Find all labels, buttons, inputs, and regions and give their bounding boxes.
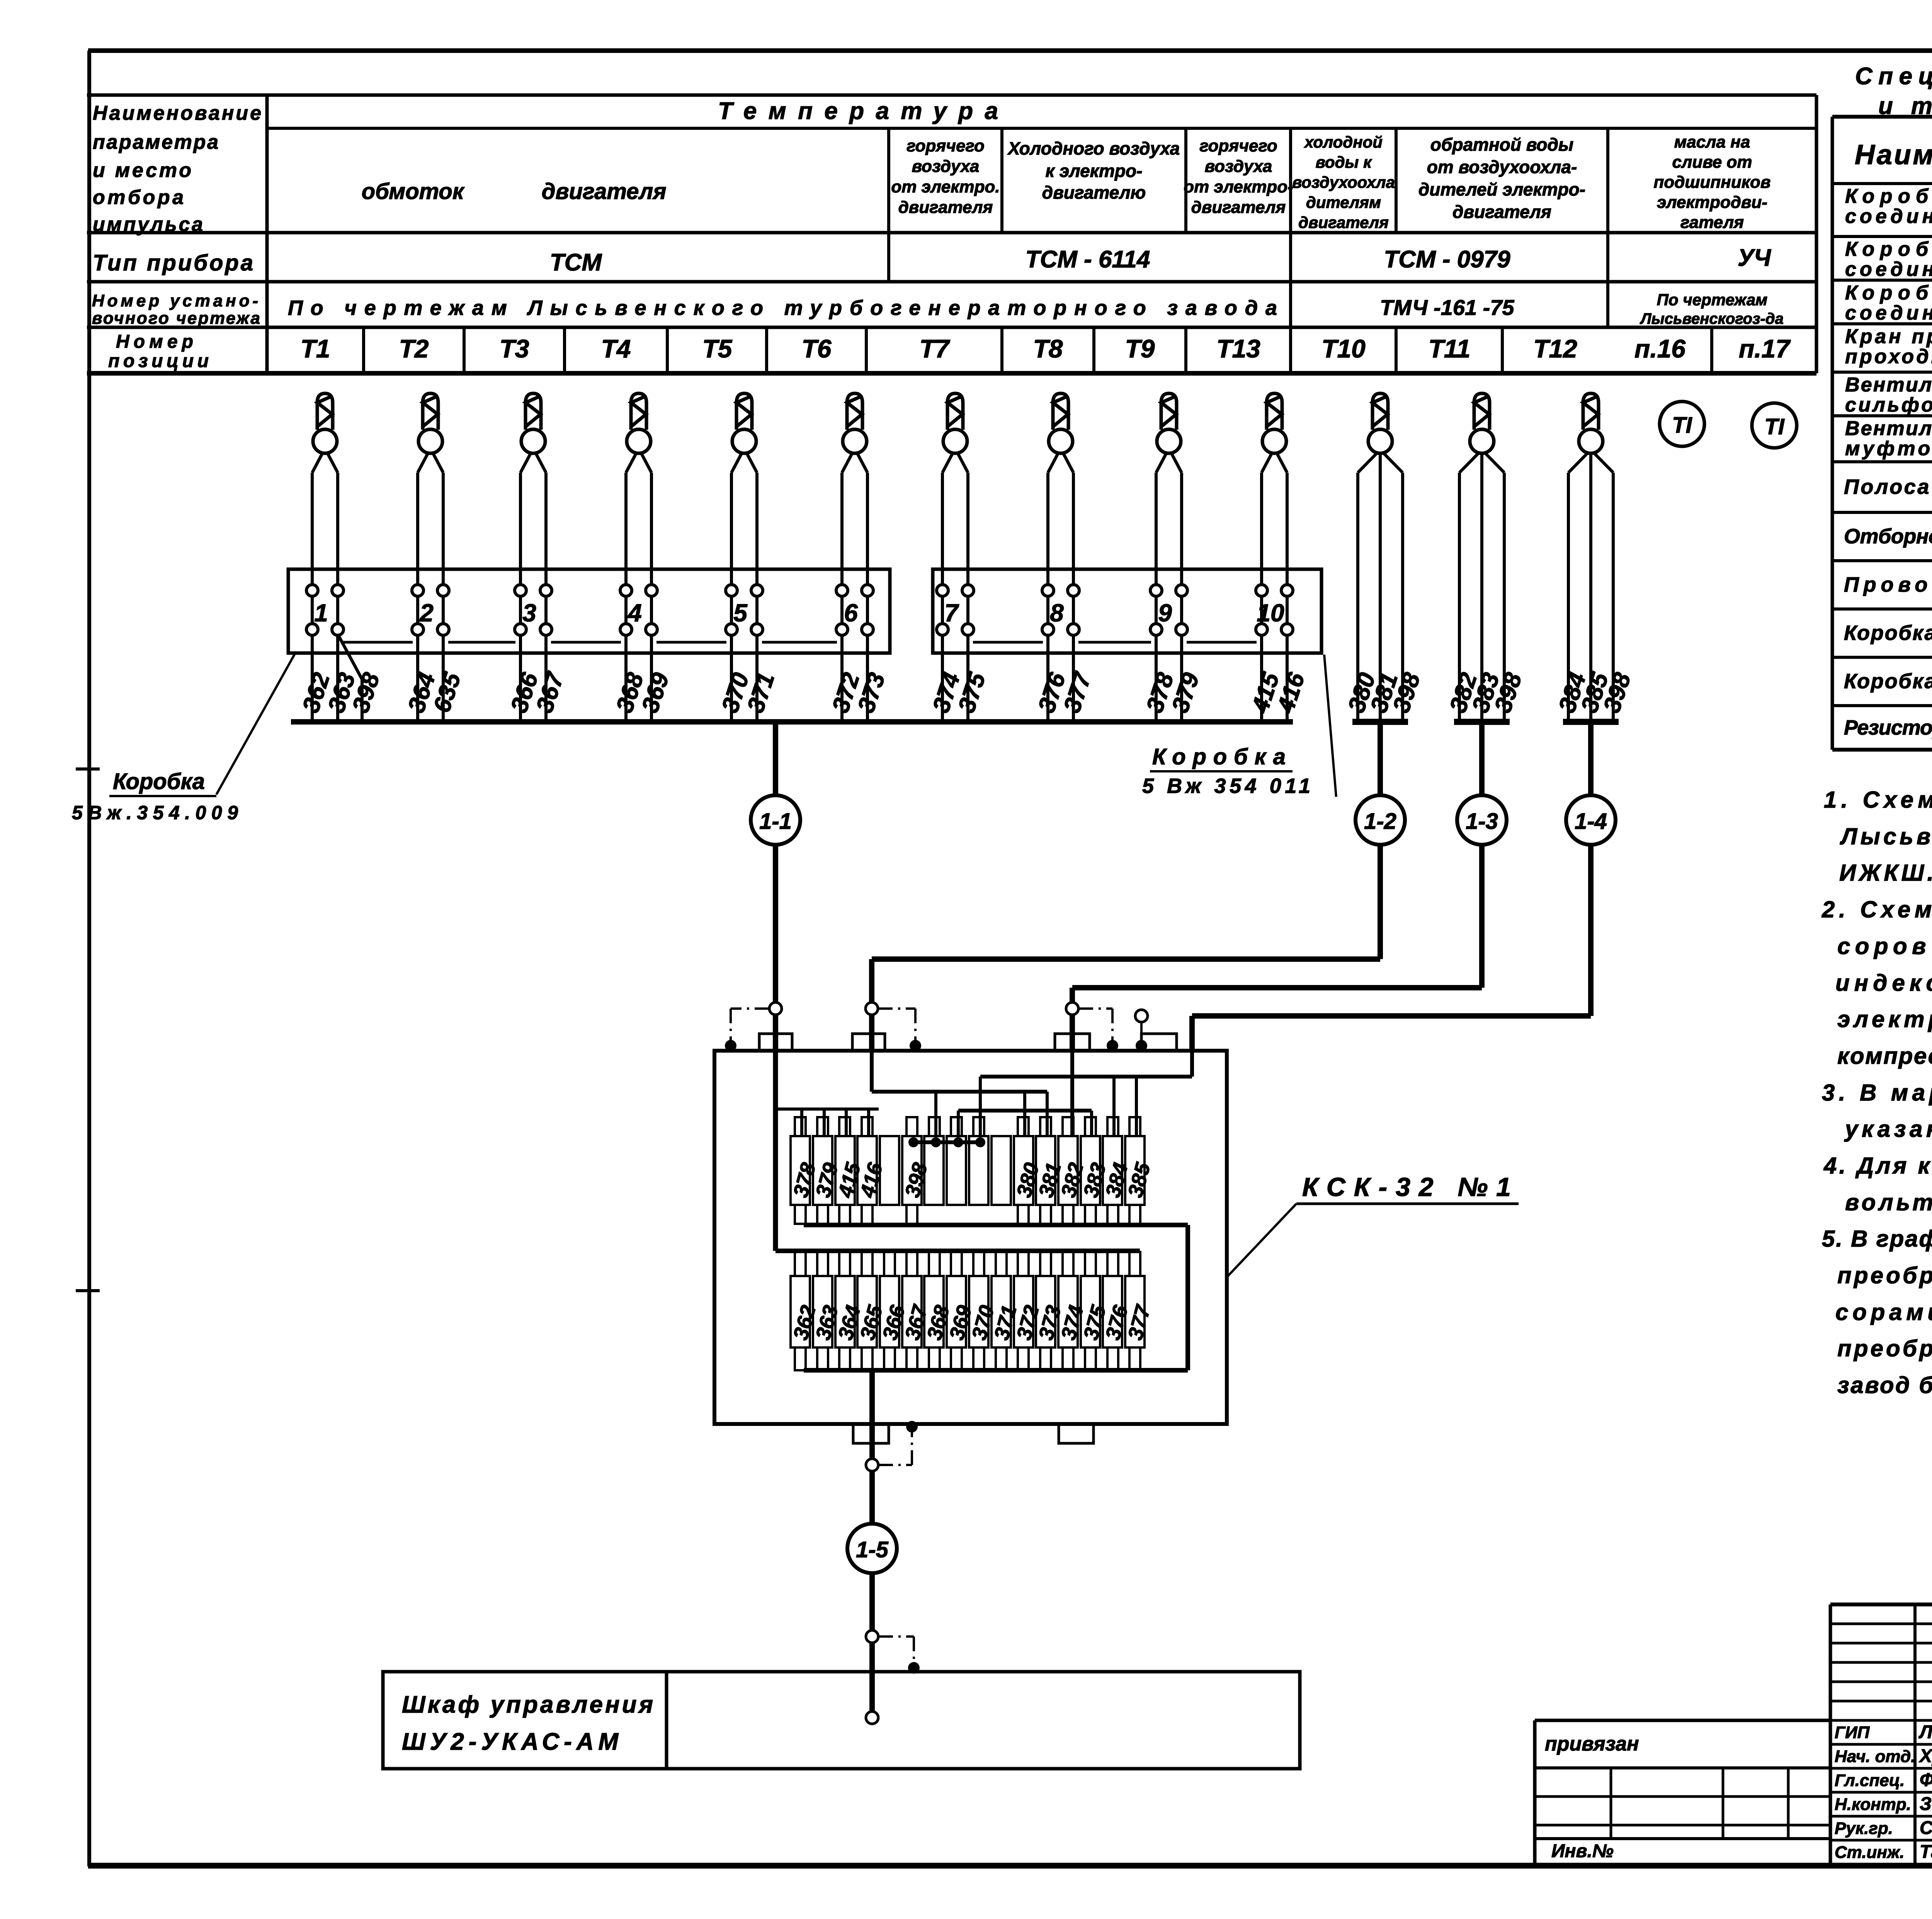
- svg-text:Золотарева: Золотарева: [1920, 1794, 1932, 1814]
- svg-text:холодной: холодной: [1304, 133, 1383, 151]
- thermocouple Т2 sensor symbol: [418, 393, 442, 453]
- common wire chain in junction boxes: [343, 641, 1257, 644]
- svg-text:Н.контр.: Н.контр.: [1835, 1795, 1911, 1814]
- svg-text:двигателя: двигателя: [898, 198, 993, 217]
- specification table grid: [1832, 117, 1932, 750]
- svg-text:Седых: Седых: [1920, 1818, 1932, 1838]
- svg-text:Шкаф управления: Шкаф управления: [402, 1691, 653, 1718]
- svg-text:6: 6: [844, 599, 858, 627]
- wire pair from Т1 down to junction box terminals: [312, 452, 338, 722]
- pipe bond at KSK-32 bottom exit: [866, 1421, 918, 1471]
- terminal pair 2 in junction box: [412, 585, 449, 635]
- svg-text:Спецификация схемы внешних: Спецификация схемы внешних электрических: [1855, 63, 1932, 90]
- svg-text:от воздухоохла-: от воздухоохла-: [1427, 157, 1577, 177]
- pipe bond at cable 1-4 entry: [1135, 1010, 1148, 1051]
- wire labels 384 385 398: [1554, 669, 1636, 716]
- junction box 5Vzh354.009 (terminals 1-6): [288, 569, 890, 653]
- svg-text:ТСМ - 0979: ТСМ - 0979: [1384, 246, 1510, 273]
- cable 1-5 drop from KSK-32 to control cabinet: [847, 1370, 897, 1718]
- table row: position numbers: [108, 332, 1791, 371]
- svg-text:двигателя: двигателя: [542, 179, 667, 204]
- svg-text:компрессоров.: компрессоров.: [1837, 1043, 1932, 1069]
- wire pair from Т5 down to junction box terminals: [731, 452, 757, 722]
- svg-text:Кран пробковый: Кран пробковый: [1845, 325, 1932, 348]
- terminal strip B (362..377): [791, 1276, 1145, 1347]
- svg-text:двигателя: двигателя: [1452, 202, 1551, 222]
- svg-text:соединительная: соединительная: [1845, 258, 1932, 281]
- internal route cable 1-3 to blocks: [958, 1051, 1092, 1137]
- svg-text:3: 3: [522, 599, 536, 627]
- svg-text:Вентиль запорный: Вентиль запорный: [1845, 417, 1932, 440]
- thermocouple Т7 sensor symbol: [943, 393, 967, 453]
- svg-text:Инв.№: Инв.№: [1551, 1841, 1614, 1861]
- svg-text:муфтовый: муфтовый: [1845, 437, 1932, 460]
- svg-text:масла на: масла на: [1674, 133, 1750, 151]
- svg-text:электроаппаратуры в соответ: электроаппаратуры в соответствии с номер…: [1837, 1006, 1932, 1032]
- svg-text:Температура: Температура: [718, 98, 1009, 124]
- svg-text:5Вж.354.009: 5Вж.354.009: [72, 802, 238, 823]
- title block grid: [1830, 1604, 1932, 1866]
- svg-text:обратной воды: обратной воды: [1430, 134, 1573, 155]
- svg-text:Т3: Т3: [499, 334, 529, 363]
- internal route cable 1-4 to blocks: [980, 1051, 1192, 1137]
- svg-text:398: 398: [901, 1160, 932, 1200]
- svg-text:Нач. отд.: Нач. отд.: [1835, 1747, 1916, 1766]
- terminal pair 7 in junction box: [937, 585, 974, 635]
- thermocouple Т10 sensor symbol: [1368, 393, 1392, 453]
- notes text block: [1821, 787, 1932, 1398]
- svg-text:2: 2: [419, 599, 434, 627]
- svg-text:ШУ2-УКАС-АМ: ШУ2-УКАС-АМ: [402, 1728, 619, 1755]
- svg-text:Христофоров: Христофоров: [1918, 1746, 1932, 1766]
- instrument bubble TI (right): [1752, 403, 1797, 448]
- svg-text:Коробка: Коробка: [1152, 744, 1286, 769]
- svg-text:завод будет выпускать с 1: завод будет выпускать с 1986 года взамен…: [1837, 1372, 1932, 1398]
- thermocouple Т11 sensor symbol: [1470, 393, 1494, 453]
- svg-text:обмоток: обмоток: [362, 179, 465, 204]
- svg-text:4: 4: [627, 599, 642, 627]
- instrument bubble TI (left): [1660, 401, 1704, 446]
- svg-text:п.17: п.17: [1739, 334, 1791, 363]
- svg-text:Фукс: Фукс: [1920, 1770, 1932, 1790]
- svg-text:двигателя: двигателя: [1191, 198, 1286, 217]
- svg-text:воды к: воды к: [1316, 153, 1372, 171]
- cable 1-1 drop and marker: [751, 722, 800, 1051]
- wire pair from Т4 down to junction box terminals: [626, 452, 651, 722]
- svg-text:Т2: Т2: [399, 334, 429, 363]
- svg-text:Коробка: Коробка: [1845, 238, 1932, 260]
- cable 1-3 drop and marker: [1072, 722, 1507, 1051]
- svg-text:5. В графе „ тип прибора “: 5. В графе „ тип прибора “ проставлены т…: [1822, 1226, 1932, 1252]
- terminal strip B (362..377) numbers: [789, 1302, 1155, 1342]
- wire pair from Т6 down to junction box terminals: [842, 452, 867, 722]
- terminal bar under Т12: [1563, 719, 1619, 725]
- svg-text:Т12: Т12: [1533, 334, 1577, 363]
- svg-text:Коробка: Коробка: [113, 769, 205, 794]
- svg-text:Т10: Т10: [1321, 334, 1366, 363]
- specification table heading: [1855, 63, 1932, 119]
- svg-text:Гл.спец.: Гл.спец.: [1835, 1771, 1905, 1790]
- svg-text:п.16: п.16: [1634, 334, 1686, 363]
- svg-text:Номер: Номер: [116, 332, 193, 352]
- svg-text:Т13: Т13: [1216, 334, 1260, 363]
- wire 398 tap from terminal 1: [338, 634, 362, 722]
- svg-text:подшипников: подшипников: [1653, 173, 1770, 192]
- svg-text:1-3: 1-3: [1466, 809, 1498, 834]
- svg-text:По чертежам Лысьвенского ту: По чертежам Лысьвенского турбогенераторн…: [288, 296, 1277, 320]
- wire pair from Т2 down to junction box terminals: [418, 452, 443, 722]
- svg-text:Лысьвенского турбогенераторн: Лысьвенского турбогенераторного завода и…: [1840, 823, 1932, 849]
- svg-text:импульса: импульса: [93, 213, 203, 236]
- thermocouple Т3 sensor symbol: [521, 393, 545, 453]
- svg-text:1-5: 1-5: [856, 1537, 889, 1562]
- svg-text:2. Схема выполнена для комп: 2. Схема выполнена для компрессора N 1, …: [1821, 897, 1932, 922]
- svg-text:соединительная: соединительная: [1845, 302, 1932, 324]
- svg-text:горячего: горячего: [906, 136, 984, 155]
- wire pair from Т9 down to junction box terminals: [1156, 452, 1182, 722]
- wire pair from Т8 down to junction box terminals: [1048, 452, 1073, 722]
- thermocouple Т8 sensor symbol: [1049, 393, 1073, 453]
- internal feed of strip B from cable 1-1: [776, 1051, 1140, 1251]
- svg-text:Т5: Т5: [702, 334, 732, 363]
- svg-text:двигателю: двигателю: [1042, 182, 1146, 202]
- specification table rows: [1844, 185, 1932, 747]
- svg-text:Коробка: Коробка: [1845, 185, 1932, 208]
- svg-text:позиции: позиции: [108, 351, 209, 371]
- svg-text:к электро-: к электро-: [1046, 161, 1143, 181]
- svg-text:Полоса стальная: Полоса стальная: [1844, 475, 1932, 498]
- svg-text:Рук.гр.: Рук.гр.: [1835, 1819, 1893, 1838]
- title block staff rows: [1835, 1722, 1932, 1862]
- svg-text:9: 9: [1158, 599, 1172, 627]
- svg-text:ТМЧ -161 -75: ТМЧ -161 -75: [1380, 295, 1514, 320]
- svg-text:КСК-32 №1: КСК-32 №1: [1302, 1172, 1511, 1202]
- terminal strip A (378..385) numbers: [789, 1160, 1155, 1200]
- svg-text:5 Вж 354 011: 5 Вж 354 011: [1142, 774, 1310, 798]
- svg-text:горячего: горячего: [1199, 136, 1277, 155]
- pipe bond at cable 1-3 entry: [1066, 1002, 1118, 1051]
- svg-text:и место: и место: [93, 159, 191, 182]
- wire pair from Т7 down to junction box terminals: [942, 452, 968, 722]
- svg-text:7: 7: [944, 599, 959, 627]
- svg-text:указаны маркировки клемм: указаны маркировки клемм шкафа ШУ2 -УКАС…: [1844, 1116, 1932, 1142]
- svg-text:параметра: параметра: [93, 131, 218, 153]
- svg-text:3. В маркировках кабелей: 3. В маркировках кабелей N 1-71... N 1-7…: [1822, 1080, 1932, 1106]
- terminal pair 4 in junction box: [620, 585, 657, 635]
- svg-text:от электро.: от электро.: [891, 177, 1000, 196]
- triple wire group from Т12: [1568, 452, 1613, 722]
- svg-text:1-4: 1-4: [1575, 809, 1607, 834]
- svg-text:ИЖКШ. 656463. 001 ТО, УКАС-М: ИЖКШ. 656463. 001 ТО, УКАС-М, ПО ХЭМЗ г.…: [1839, 860, 1932, 886]
- svg-text:преобразователей, поставляемых: преобразователей, поставляемых в комплек…: [1837, 1262, 1932, 1288]
- specification table header texts: [1855, 126, 1932, 178]
- cable 1-4 drop and marker: [1192, 722, 1616, 1051]
- svg-text:Т4: Т4: [601, 334, 631, 363]
- terminal pair 8 in junction box: [1042, 585, 1079, 635]
- terminal bar under Т10: [1352, 719, 1408, 725]
- label Korobka 5Vzh354011 with leader: [1142, 655, 1336, 798]
- svg-text:сильфонный: сильфонный: [1845, 394, 1932, 416]
- cable 1-2 drop and marker: [872, 722, 1405, 1051]
- svg-text:проходной: проходной: [1845, 345, 1932, 368]
- jumper bridge over blocks with dots (398 net): [908, 1137, 985, 1147]
- thermocouple Т4 sensor symbol: [627, 393, 651, 453]
- svg-text:дителей электро-: дителей электро-: [1418, 179, 1585, 199]
- svg-text:Ст.инж.: Ст.инж.: [1835, 1843, 1905, 1862]
- pipe bond at cabinet entry: [866, 1630, 920, 1724]
- terminal strip A (378..385): [791, 1136, 1145, 1205]
- triple wire group from Т11: [1459, 452, 1504, 722]
- thermocouple Т12 sensor symbol: [1579, 393, 1603, 453]
- svg-text:от электро-: от электро-: [1184, 177, 1293, 196]
- svg-text:Таболина: Таболина: [1920, 1842, 1932, 1862]
- wire number labels for pairs: [298, 669, 1310, 716]
- svg-text:По чертежам: По чертежам: [1657, 291, 1768, 309]
- internal link to blocks 378-416: [777, 1109, 879, 1137]
- svg-text:сорами. Рядом, в скобках, п: сорами. Рядом, в скобках, проставлены ти…: [1835, 1299, 1932, 1325]
- svg-text:УЧ: УЧ: [1738, 245, 1771, 271]
- svg-text:индексов в маркировках каб: индексов в маркировках кабелей и труб и …: [1835, 970, 1932, 996]
- table header texts: [93, 98, 1771, 236]
- thermocouple Т1 sensor symbol: [313, 393, 337, 453]
- auxiliary table Privyazan: [1535, 1720, 1830, 1866]
- svg-text:Холодного воздуха: Холодного воздуха: [1007, 138, 1180, 158]
- svg-text:электродви-: электродви-: [1657, 193, 1767, 212]
- strip B top stubs: [795, 1252, 1140, 1276]
- collector below strip B: [804, 1368, 1188, 1373]
- svg-text:вольтных камер даны в каб: вольтных камер даны в кабельном журнале.: [1845, 1189, 1932, 1215]
- svg-text:Тип прибора: Тип прибора: [93, 250, 253, 276]
- svg-text:Коробка клеммная: Коробка клеммная: [1844, 621, 1932, 645]
- terminal pair 10 in junction box: [1256, 585, 1293, 635]
- svg-text:Т1: Т1: [300, 334, 330, 363]
- svg-text:Т7: Т7: [919, 334, 950, 363]
- svg-text:соединительная: соединительная: [1845, 205, 1932, 228]
- terminal pair 6 in junction box: [836, 585, 873, 635]
- svg-text:дителям: дителям: [1306, 193, 1381, 211]
- svg-text:гателя: гателя: [1680, 213, 1744, 232]
- wire pair from Т3 down to junction box terminals: [520, 452, 546, 722]
- svg-text:Леонов: Леонов: [1918, 1722, 1932, 1742]
- svg-text:ГИП: ГИП: [1835, 1723, 1870, 1742]
- collector below strip A and right riser: [804, 1225, 1188, 1370]
- svg-text:воздухоохла: воздухоохла: [1292, 173, 1395, 191]
- svg-text:сливе от: сливе от: [1672, 153, 1752, 172]
- strip A top stubs: [795, 1117, 1140, 1136]
- svg-text:1-2: 1-2: [1364, 809, 1396, 834]
- table row: installation drawing number: [92, 291, 1784, 328]
- svg-text:Вентиль запорный: Вентиль запорный: [1845, 374, 1932, 396]
- svg-text:Т6: Т6: [801, 334, 832, 363]
- pipe bond at cable 1-1 entry: [725, 1002, 782, 1051]
- triple wire group from Т10: [1358, 452, 1403, 722]
- svg-text:Проводник: Проводник: [1844, 573, 1932, 596]
- thermocouple Т6 sensor symbol: [843, 393, 867, 453]
- terminal pair 3 in junction box: [515, 585, 552, 635]
- terminal pair 5 in junction box: [726, 585, 763, 635]
- svg-text:отбора: отбора: [93, 186, 184, 209]
- wire labels 380 381 398: [1343, 669, 1426, 716]
- svg-text:воздуха: воздуха: [912, 157, 980, 176]
- svg-text:Т8: Т8: [1033, 334, 1063, 363]
- svg-text:Лысьвенскогоз-да: Лысьвенскогоз-да: [1639, 310, 1784, 327]
- internal route cable 1-2 to blocks: [872, 1051, 1047, 1137]
- strip A bottom stubs: [795, 1205, 1140, 1224]
- svg-text:5: 5: [733, 599, 748, 627]
- svg-text:Коробка: Коробка: [1845, 282, 1932, 304]
- svg-text:вочного чертежа: вочного чертежа: [92, 309, 260, 328]
- strip B bottom stubs: [795, 1347, 1140, 1370]
- cable glands on top of KSK-32: [759, 1034, 1177, 1051]
- connection box KSK-32 N1: [714, 1051, 1227, 1424]
- svg-text:Наименование: Наименование: [1855, 140, 1932, 170]
- junction box 5Vzh354011 (terminals 7-10): [933, 569, 1321, 653]
- svg-text:Номер устано-: Номер устано-: [92, 291, 258, 310]
- svg-text:Отборное устройство: Отборное устройство: [1844, 525, 1932, 548]
- terminal pair 1 in junction box: [306, 585, 344, 635]
- cable glands on bottom of KSK-32: [853, 1424, 1094, 1443]
- collector bus under junction boxes: [291, 719, 1293, 725]
- wire pair from Т13 down to junction box terminals: [1262, 452, 1287, 722]
- pipe bond at cable 1-2 entry: [866, 1002, 921, 1051]
- table: parameter header table: [87, 95, 1816, 373]
- label Korobka 5Vzh.354.009 with leader: [72, 654, 295, 823]
- thermocouple Т5 sensor symbol: [732, 393, 756, 453]
- svg-text:ТI: ТI: [1764, 414, 1785, 439]
- control cabinet ShU2-UKAS-AM: [383, 1672, 1300, 1769]
- svg-text:Т9: Т9: [1125, 334, 1155, 363]
- thermocouple Т9 sensor symbol: [1157, 393, 1181, 453]
- label KSK-32 N1 with leader: [1227, 1172, 1519, 1277]
- table row: device type: [93, 245, 1771, 276]
- svg-text:воздуха: воздуха: [1205, 157, 1272, 176]
- svg-text:Наименование: Наименование: [93, 102, 261, 124]
- svg-text:двигателя: двигателя: [1298, 213, 1389, 231]
- svg-text:ТСМ - 6114: ТСМ - 6114: [1026, 246, 1150, 273]
- terminal pair 9 in junction box: [1150, 585, 1187, 635]
- svg-text:10: 10: [1257, 599, 1284, 627]
- svg-text:ТСМ: ТСМ: [550, 249, 602, 276]
- svg-text:1: 1: [314, 599, 328, 627]
- thermocouple Т13 sensor symbol: [1262, 393, 1286, 453]
- svg-text:1-1: 1-1: [759, 809, 792, 834]
- svg-text:1. Схема выполнена на осн: 1. Схема выполнена на основании чертежа …: [1824, 787, 1932, 813]
- svg-text:Т11: Т11: [1429, 334, 1471, 363]
- svg-text:4. Для компрессоров N 2..: 4. Для компрессоров N 2... N 4(3) номера…: [1823, 1153, 1932, 1179]
- svg-text:8: 8: [1050, 599, 1064, 627]
- svg-text:Коробка клеммная: Коробка клеммная: [1844, 670, 1932, 693]
- svg-text:привязан: привязан: [1545, 1733, 1639, 1755]
- wire labels 382 383 398: [1445, 669, 1527, 716]
- svg-text:преобразователей, которые Лу: преобразователей, которые Луцкий приборо…: [1837, 1335, 1932, 1361]
- terminal bar under Т11: [1454, 719, 1510, 725]
- svg-text:Резистор добавочный: Резистор добавочный: [1844, 716, 1932, 739]
- svg-text:ТI: ТI: [1672, 413, 1692, 438]
- svg-text:соров N 2 ... N 4(3) схемы: соров N 2 ... N 4(3) схемы аналогичны да…: [1837, 933, 1932, 959]
